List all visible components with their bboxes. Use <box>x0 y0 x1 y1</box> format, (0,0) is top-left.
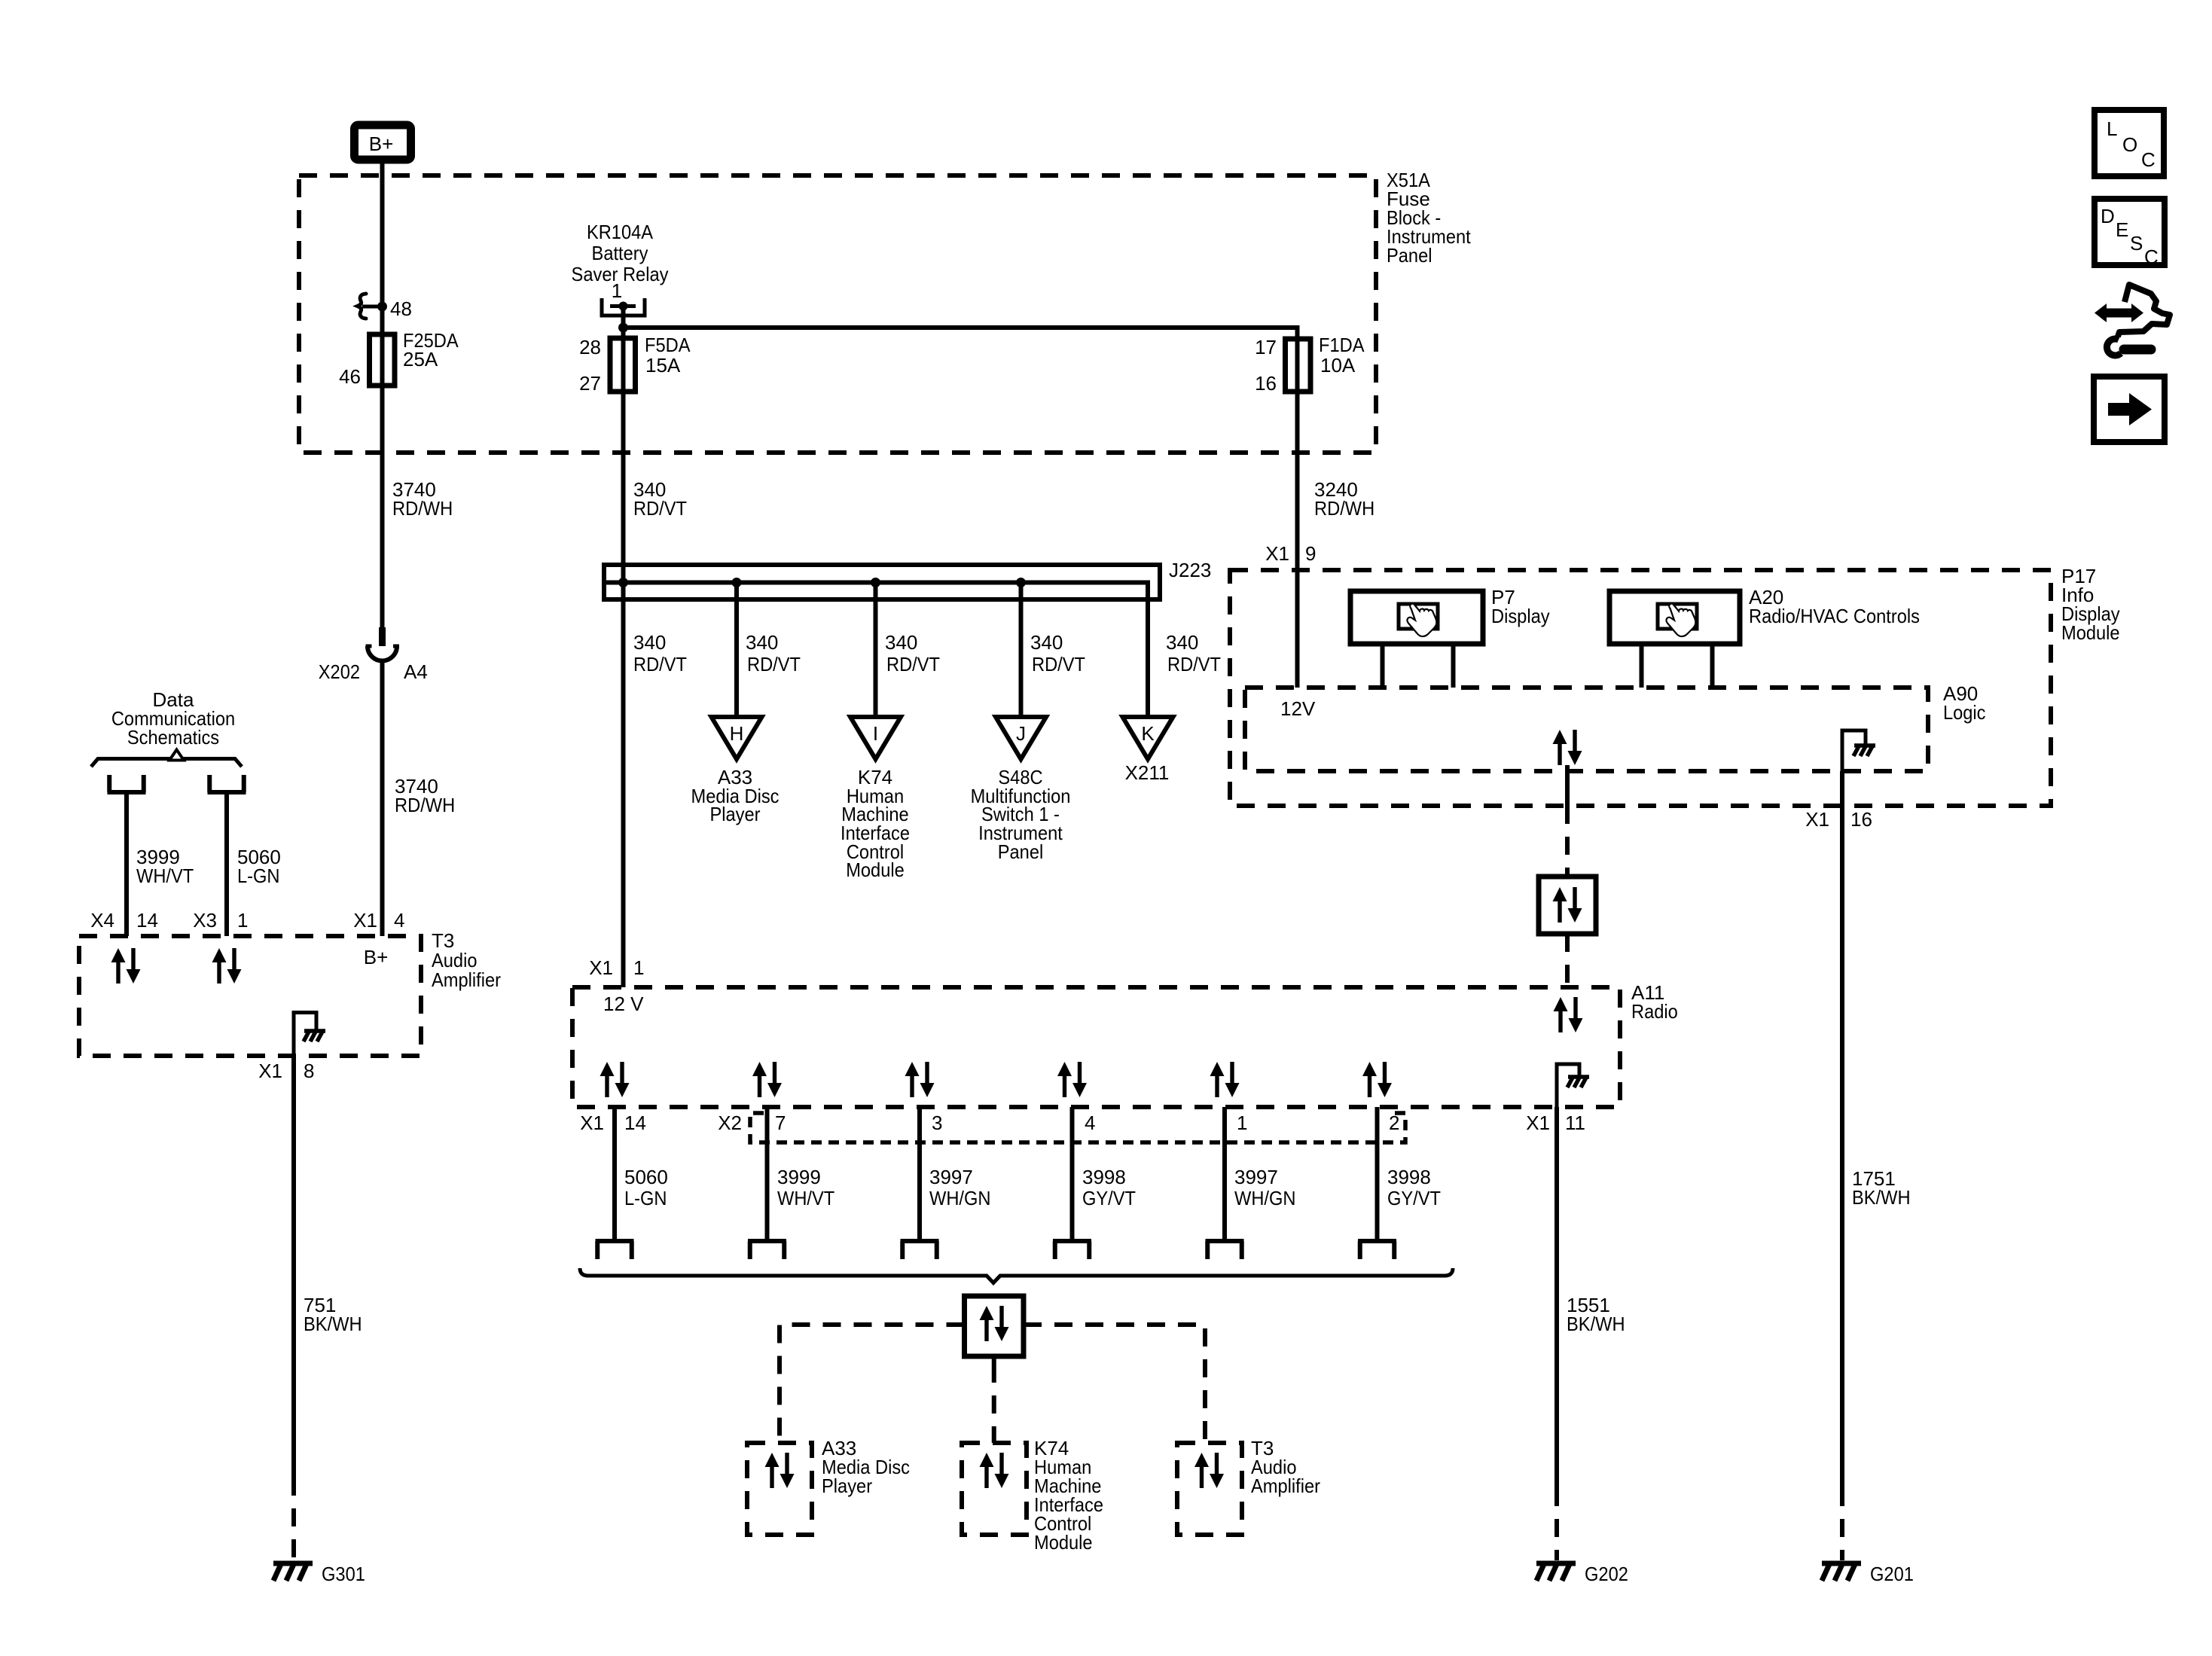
svg-text:RD/VT: RD/VT <box>886 653 940 676</box>
ground G202 <box>1536 1563 1576 1581</box>
off-page connector I <box>850 717 901 759</box>
svg-text:Player: Player <box>709 803 760 825</box>
P7 touch screen icon <box>1399 604 1438 629</box>
wire J223 to connector I <box>874 583 878 718</box>
wire label 340 RD/VT (I) <box>885 631 940 676</box>
svg-text:340: 340 <box>633 631 666 654</box>
label A11 Radio <box>1631 981 1678 1023</box>
data link connector symbol box <box>1539 877 1596 934</box>
svg-text:X1: X1 <box>353 909 377 932</box>
icon next-page arrow <box>2094 377 2165 442</box>
svg-text:340: 340 <box>1030 631 1063 654</box>
connector X202 cup end ticks <box>366 645 400 648</box>
label T3 Audio Amplifier <box>432 929 501 991</box>
wire radio pin X2-7 to harness <box>765 1107 770 1239</box>
wire label 1551 BK/WH <box>1567 1294 1625 1335</box>
connector X2 dotted outline <box>750 1113 1405 1142</box>
svg-text:H: H <box>730 722 744 745</box>
svg-text:Radio/HVAC Controls: Radio/HVAC Controls <box>1749 605 1920 627</box>
svg-text:Battery: Battery <box>592 242 648 264</box>
wire A11 ground to G202 <box>1555 1107 1559 1488</box>
wire to T3 pin X4-14 <box>124 792 129 936</box>
icon DESC <box>2095 199 2165 268</box>
svg-text:1: 1 <box>612 279 622 302</box>
svg-text:F5DA: F5DA <box>645 334 691 356</box>
label A90 Logic <box>1943 682 1986 724</box>
junction dot main <box>618 578 628 587</box>
A90 internal ground symbol <box>1854 746 1875 756</box>
serial data arrows (radio X2-7) <box>752 1062 782 1097</box>
svg-text:J223: J223 <box>1169 559 1211 581</box>
wire label 340 RD/VT (J) <box>1030 631 1085 676</box>
svg-text:12V: 12V <box>1280 697 1316 720</box>
svg-text:RD/WH: RD/WH <box>392 497 453 520</box>
serial data arrows (radio X1-14) <box>600 1062 630 1097</box>
svg-text:G201: G201 <box>1870 1563 1914 1585</box>
ground G301 <box>273 1563 313 1581</box>
svg-text:1: 1 <box>633 956 644 979</box>
gathering brace <box>580 1268 1453 1283</box>
svg-text:17: 17 <box>1255 336 1277 358</box>
A20 touch hand <box>1666 604 1695 637</box>
svg-text:12 V: 12 V <box>603 993 644 1015</box>
value label F1DA 10A <box>1319 334 1365 377</box>
T3 audio amplifier dashed box (bottom) <box>1177 1443 1242 1535</box>
label K74 Human Machine Interface Control Module <box>841 766 910 881</box>
T3 audio amplifier dashed box <box>79 936 421 1056</box>
wire B+ to fuse F25DA <box>380 163 385 629</box>
svg-text:WH/GN: WH/GN <box>1234 1187 1296 1209</box>
wire A90 ground to G201 <box>1840 771 1844 1488</box>
svg-text:Logic: Logic <box>1943 701 1986 724</box>
A11 internal ground symbol <box>1567 1077 1589 1087</box>
svg-text:S: S <box>2130 232 2143 255</box>
svg-text:9: 9 <box>1305 542 1316 565</box>
dashed branch to K74 <box>992 1365 996 1443</box>
svg-text:4: 4 <box>1085 1112 1095 1134</box>
dashed wire to G201 <box>1840 1488 1844 1560</box>
fuse F25DA <box>370 334 395 386</box>
svg-text:Display: Display <box>1491 605 1550 627</box>
stub below bus symbol <box>992 1356 996 1365</box>
svg-text:A4: A4 <box>404 660 428 683</box>
svg-text:X3: X3 <box>193 909 217 932</box>
off-page connector J <box>996 717 1046 759</box>
connector X202 male pin <box>379 627 386 646</box>
pin label X1 14 <box>580 1112 646 1134</box>
wire to T3 pin X3-1 <box>224 792 229 936</box>
wire label 3997 WH/GN (b) <box>1234 1166 1296 1209</box>
svg-text:3: 3 <box>932 1112 942 1134</box>
dashed branch to A33 <box>780 1325 965 1443</box>
svg-text:48: 48 <box>390 297 412 320</box>
wire radio pin X2-2 to harness <box>1375 1107 1380 1239</box>
svg-text:Panel: Panel <box>1387 244 1432 267</box>
K74 arrows <box>980 1453 1009 1488</box>
label A33 Media Disc Player (bottom) <box>822 1437 910 1497</box>
wire label 340 RD/VT (K) <box>1166 631 1221 676</box>
ground G201 <box>1822 1563 1861 1581</box>
svg-text:O: O <box>2122 133 2137 156</box>
wire label 3999 WH/VT <box>777 1166 834 1209</box>
svg-text:X1: X1 <box>1805 808 1829 831</box>
svg-text:Module: Module <box>846 858 905 881</box>
wire label 3998 GY/VT (b) <box>1387 1166 1441 1209</box>
svg-text:GY/VT: GY/VT <box>1082 1187 1136 1209</box>
wire label 3740 RD/WH <box>392 478 453 520</box>
svg-text:I: I <box>873 722 878 745</box>
svg-text:GY/VT: GY/VT <box>1387 1187 1441 1209</box>
junction dot J <box>1016 578 1026 587</box>
label A33 Media Disc Player <box>691 766 780 825</box>
svg-text:340: 340 <box>1166 631 1198 654</box>
wire A90 arrows to P17 edge <box>1565 765 1570 806</box>
wire label 3998 GY/VT <box>1082 1166 1136 1209</box>
serial data arrows (radio X2-2) <box>1362 1062 1392 1097</box>
svg-text:RD/VT: RD/VT <box>747 653 801 676</box>
serial data arrows (radio X2-3) <box>905 1062 935 1097</box>
serial data bus arrows <box>980 1306 1009 1341</box>
label P7 Display <box>1491 586 1550 627</box>
fuse F5DA <box>610 338 636 392</box>
svg-text:RD/VT: RD/VT <box>1032 653 1085 676</box>
svg-text:8: 8 <box>304 1060 314 1082</box>
svg-text:3997: 3997 <box>1234 1166 1278 1188</box>
svg-text:G301: G301 <box>322 1563 365 1585</box>
fuse block X51A dashed outline <box>299 175 1376 453</box>
svg-text:Panel: Panel <box>998 840 1044 863</box>
wire J223 to connector K <box>1146 599 1150 717</box>
svg-text:RD/WH: RD/WH <box>395 794 455 816</box>
pin label X1 16 <box>1805 808 1872 831</box>
svg-text:WH/VT: WH/VT <box>777 1187 834 1209</box>
svg-text:J: J <box>1016 722 1026 745</box>
terminal (3997) <box>901 1241 939 1259</box>
terminal (3998 b) <box>1358 1241 1396 1259</box>
svg-text:Amplifier: Amplifier <box>432 968 501 991</box>
svg-text:L-GN: L-GN <box>624 1187 667 1209</box>
svg-text:L: L <box>2107 117 2117 140</box>
svg-text:BK/WH: BK/WH <box>1852 1186 1911 1209</box>
off-page connector H <box>712 717 762 759</box>
terminal (3997 b) <box>1206 1241 1244 1259</box>
wire radio pin X2-4 to harness <box>1070 1107 1075 1239</box>
svg-text:L-GN: L-GN <box>237 865 280 887</box>
svg-text:Module: Module <box>1034 1531 1093 1554</box>
P7 touch hand <box>1407 604 1436 637</box>
dashed branch to T3 <box>1024 1325 1205 1443</box>
svg-text:X1: X1 <box>589 956 613 979</box>
dashed data wire to DLC symbol <box>1565 806 1570 877</box>
wire J223 to connector H <box>734 583 739 718</box>
wire X202 to T3 amplifier <box>380 661 385 937</box>
svg-text:14: 14 <box>624 1112 646 1134</box>
relay pin 1 dot <box>619 302 628 311</box>
svg-text:16: 16 <box>1850 808 1872 831</box>
fuse F1DA <box>1286 339 1311 392</box>
connector label X1 9 <box>1265 542 1316 565</box>
svg-text:X2: X2 <box>718 1112 742 1134</box>
pin label X1 1 (radio feed) <box>589 956 644 979</box>
J223 bus bar <box>606 583 1148 600</box>
relay inner contact bar <box>610 304 636 308</box>
P17 info display module dashed box <box>1230 570 2051 806</box>
svg-text:1: 1 <box>1237 1112 1247 1134</box>
dashed wire to G202 <box>1555 1488 1559 1560</box>
svg-text:46: 46 <box>339 365 361 388</box>
svg-text:F1DA: F1DA <box>1319 334 1365 356</box>
junction dot H <box>732 578 742 587</box>
svg-text:340: 340 <box>885 631 917 654</box>
svg-text:X211: X211 <box>1125 761 1170 784</box>
svg-text:X1: X1 <box>1526 1112 1550 1134</box>
A33 media disc player dashed box <box>747 1443 812 1535</box>
svg-text:7: 7 <box>775 1112 786 1134</box>
data link connector arrows <box>1553 887 1582 923</box>
label T3 Audio Amplifier (bottom) <box>1251 1437 1320 1497</box>
svg-text:D: D <box>2101 205 2115 227</box>
pin label X1 8 <box>258 1060 314 1082</box>
serial data arrows (T3 X4-14) <box>111 948 141 984</box>
wire label 340 RD/VT (above J223) <box>633 478 687 520</box>
value label F25DA 25A <box>403 329 459 371</box>
svg-text:KR104A: KR104A <box>587 221 654 243</box>
terminal cup (serial data 2) <box>208 775 246 792</box>
label X51A Fuse Block - Instrument Panel <box>1387 169 1471 267</box>
K74 HMI control module dashed box <box>962 1443 1027 1535</box>
T3 internal ground wire <box>294 1013 316 1057</box>
terminal (3998) <box>1053 1241 1091 1259</box>
pin label X4 14 <box>90 909 158 932</box>
pin label X3 1 <box>193 909 248 932</box>
wire junction to fuse F1DA <box>624 328 1298 688</box>
wire label 1751 BK/WH <box>1852 1167 1911 1209</box>
svg-text:X4: X4 <box>90 909 114 932</box>
svg-text:15A: 15A <box>645 354 681 377</box>
svg-text:C: C <box>2141 148 2156 171</box>
svg-text:Amplifier: Amplifier <box>1251 1475 1320 1497</box>
junction node dot <box>618 323 628 333</box>
wire label 3999 WH/VT <box>136 846 194 887</box>
svg-text:3997: 3997 <box>929 1166 973 1188</box>
svg-text:Schematics: Schematics <box>127 726 219 749</box>
serial data bus symbol box <box>965 1296 1024 1356</box>
svg-text:14: 14 <box>136 909 158 932</box>
B+ power symbol box <box>355 125 411 160</box>
wire label 3740 RD/WH (lower) <box>395 775 455 816</box>
svg-text:E: E <box>2116 218 2128 241</box>
svg-text:Radio: Radio <box>1631 1000 1678 1023</box>
value label F5DA 15A <box>645 334 691 377</box>
svg-text:16: 16 <box>1255 372 1277 395</box>
switch tap at terminal 48 <box>362 305 383 309</box>
A90 logic dashed box <box>1245 688 1928 771</box>
svg-text:3998: 3998 <box>1387 1166 1431 1188</box>
wire relay to junction <box>621 306 626 988</box>
svg-text:B+: B+ <box>364 946 389 968</box>
svg-text:Module: Module <box>2061 621 2120 644</box>
svg-text:G202: G202 <box>1585 1563 1628 1585</box>
terminal (3999) <box>748 1241 786 1259</box>
wire label 3997 WH/GN <box>929 1166 991 1209</box>
svg-text:WH/GN: WH/GN <box>929 1187 991 1209</box>
reference brace pointer triangle <box>169 750 184 761</box>
wire radio pin X2-3 to harness <box>917 1107 922 1239</box>
svg-text:3999: 3999 <box>777 1166 821 1188</box>
icon connector-repair (arrow, shell, wrench) <box>2095 285 2170 355</box>
T3 arrows <box>1194 1453 1224 1488</box>
svg-text:28: 28 <box>579 336 601 358</box>
label Data Communication Schematics <box>111 688 235 749</box>
svg-text:1: 1 <box>237 909 248 932</box>
svg-text:3998: 3998 <box>1082 1166 1126 1188</box>
serial data arrows (A90) <box>1553 730 1582 765</box>
svg-text:WH/VT: WH/VT <box>136 865 194 887</box>
off-page connector K <box>1123 717 1173 759</box>
switch hook symbol <box>358 294 367 319</box>
wire radio pin X2-1 to harness <box>1222 1107 1227 1239</box>
T3 internal ground symbol <box>304 1031 325 1041</box>
wire label 340 RD/VT (H) <box>746 631 801 676</box>
terminal cup (serial data 1) <box>108 775 146 792</box>
reference brace <box>91 759 242 767</box>
svg-text:BK/WH: BK/WH <box>304 1313 362 1335</box>
icon LOC <box>2095 110 2164 176</box>
A90 internal ground wire <box>1842 730 1866 771</box>
A33 arrows <box>765 1453 795 1488</box>
junction dot I <box>871 578 880 587</box>
node 48 junction dot <box>377 302 387 312</box>
svg-text:RD/VT: RD/VT <box>1167 653 1221 676</box>
terminal (5060) <box>596 1241 634 1259</box>
svg-text:27: 27 <box>579 372 601 395</box>
dashed wire to G301 <box>291 1478 296 1560</box>
pin label X1 4 <box>353 909 404 932</box>
svg-text:X202: X202 <box>319 660 360 683</box>
svg-text:B+: B+ <box>369 133 394 155</box>
label S48C Multifunction Switch 1 - Instrument Panel <box>971 766 1071 863</box>
wire label 751 BK/WH <box>304 1294 362 1335</box>
P7 display box <box>1350 591 1483 644</box>
svg-text:RD/VT: RD/VT <box>633 497 687 520</box>
relay KR104A label <box>572 221 669 285</box>
svg-text:BK/WH: BK/WH <box>1567 1313 1625 1335</box>
P7 legs to A90 <box>1383 644 1454 688</box>
wire radio pin X1-14 to harness <box>612 1107 617 1239</box>
serial data arrows (radio X2-1) <box>1210 1062 1240 1097</box>
wire T3 to G301 <box>291 1056 296 1478</box>
splice pack J223 outer box <box>604 565 1160 599</box>
svg-text:X1: X1 <box>580 1112 604 1134</box>
relay KR104A bracket <box>602 298 645 316</box>
label A20 Radio/HVAC Controls <box>1749 586 1920 627</box>
svg-text:C: C <box>2144 246 2159 268</box>
dashed data wire to radio <box>1565 934 1570 987</box>
serial data arrows (radio right) <box>1554 997 1583 1032</box>
svg-text:X1: X1 <box>1265 542 1289 565</box>
svg-text:5060: 5060 <box>624 1166 668 1188</box>
wire label 5060 L-GN <box>624 1166 668 1209</box>
svg-text:4: 4 <box>394 909 404 932</box>
wire label 5060 L-GN <box>237 846 281 887</box>
svg-text:340: 340 <box>746 631 778 654</box>
serial data arrows (T3 X3-1) <box>212 948 242 984</box>
connector X202 female cup <box>368 646 397 661</box>
svg-text:RD/VT: RD/VT <box>633 653 687 676</box>
svg-text:X1: X1 <box>258 1060 282 1082</box>
svg-text:25A: 25A <box>403 348 438 371</box>
label P17 Info Display Module <box>2061 565 2120 644</box>
A20 radio/HVAC controls box <box>1609 591 1740 644</box>
svg-text:10A: 10A <box>1320 354 1356 377</box>
wire label 340 RD/VT (to radio) <box>633 631 687 676</box>
pin label X2 7 <box>718 1112 786 1134</box>
svg-text:RD/WH: RD/WH <box>1314 497 1374 520</box>
label K74 Human Machine Interface Control Module (bottom) <box>1034 1437 1103 1554</box>
svg-text:K: K <box>1141 722 1155 745</box>
svg-text:Player: Player <box>822 1475 872 1497</box>
pin label X1 11 <box>1526 1112 1585 1134</box>
svg-text:11: 11 <box>1565 1112 1585 1134</box>
A11 radio dashed box <box>572 987 1620 1107</box>
wire J223 to connector J <box>1019 583 1024 718</box>
serial data arrows (radio X2-4) <box>1057 1062 1087 1097</box>
A20 legs to A90 <box>1642 644 1713 688</box>
A20 touch screen icon <box>1658 604 1697 629</box>
A11 internal ground wire <box>1557 1064 1579 1107</box>
wire label 3240 RD/WH <box>1314 478 1374 520</box>
